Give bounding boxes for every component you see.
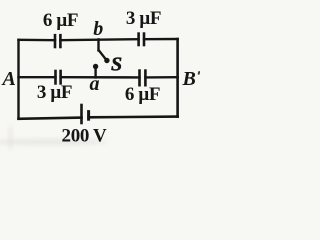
wire: top wire left segment xyxy=(19,39,56,42)
switch S stub from node b xyxy=(97,39,99,50)
wire: middle wire right segment xyxy=(145,76,177,79)
wire: top wire right segment xyxy=(144,38,178,41)
stray tick after B xyxy=(198,71,201,75)
svg-text:A: A xyxy=(1,68,16,90)
capacitor C4 6uF middle-right plates xyxy=(138,71,141,86)
svg-text:3 μF: 3 μF xyxy=(126,8,161,29)
svg-text:a: a xyxy=(90,73,100,95)
svg-text:S: S xyxy=(111,53,122,75)
wire: right vertical (B rail) xyxy=(176,39,179,117)
svg-text:6 μF: 6 μF xyxy=(43,10,78,31)
switch S stub to node a xyxy=(94,67,96,78)
switch contact dot at a xyxy=(93,64,98,69)
battery 200V long plate xyxy=(80,105,83,123)
svg-text:b: b xyxy=(93,18,103,40)
svg-text:6 μF: 6 μF xyxy=(125,84,160,105)
battery 200V short plate xyxy=(87,112,90,120)
wire: middle wire left segment xyxy=(19,76,56,78)
switch contact dot at S xyxy=(104,58,109,63)
svg-text:3 μF: 3 μF xyxy=(37,82,72,103)
wire: bottom wire right segment xyxy=(89,115,178,118)
switch S blade xyxy=(99,50,107,60)
svg-text:200 V: 200 V xyxy=(62,126,108,147)
wire: bottom wire left segment xyxy=(19,118,82,119)
wire: top wire middle segment xyxy=(60,39,138,40)
wire: middle wire center segment xyxy=(61,76,140,79)
capacitor C2 3uF top-right plates xyxy=(137,34,140,45)
capacitor C1 6uF top-left plates xyxy=(54,35,57,47)
capacitor C3 3uF middle-left plates xyxy=(54,71,57,83)
svg-text:B: B xyxy=(182,68,196,90)
wire: left vertical (A rail) xyxy=(17,40,19,119)
